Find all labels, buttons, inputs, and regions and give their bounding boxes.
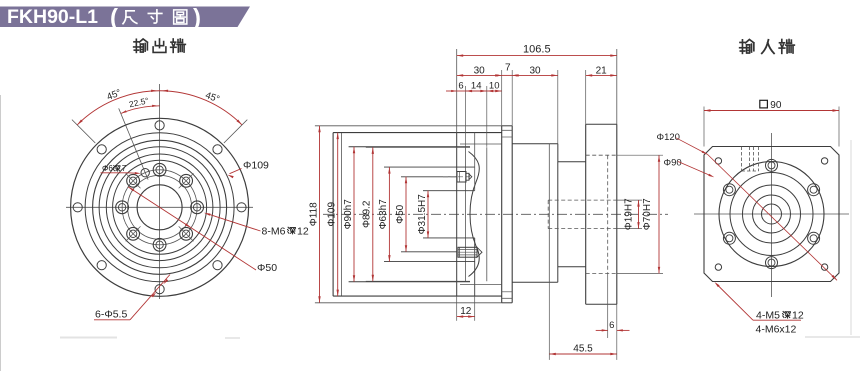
svg-text:45.5: 45.5 [573, 344, 593, 355]
svg-text:Φ90: Φ90 [664, 158, 682, 169]
svg-text:30: 30 [474, 66, 486, 77]
left view 135deg extension line [72, 120, 95, 143]
middle view centerline [323, 213, 668, 215]
middle view plate corner steps [502, 136, 513, 138]
dimension 6 recess depth [607, 273, 609, 338]
dimension phi118 [319, 126, 321, 303]
middle view bore edge phi90h7 [349, 146, 470, 148]
dimension 6 rear small [446, 90, 457, 92]
dimension 106.5 overall [457, 55, 617, 57]
middle view internal joint face [456, 133, 458, 297]
right view 6 counterbored holes [766, 159, 778, 171]
dimension phi90h7 [353, 147, 355, 282]
faint smudge bottom [60, 337, 117, 339]
dimension phi63h7 [388, 167, 390, 262]
left view circle r67 [93, 140, 227, 274]
svg-text:106.5: 106.5 [523, 43, 551, 55]
middle view bore phi19H7 hidden lines [548, 199, 617, 201]
right view red diagonal pcd line [708, 154, 838, 280]
right view square flange outline [704, 147, 839, 282]
svg-text:12: 12 [297, 226, 309, 238]
left view 112.5deg extension line [119, 108, 148, 179]
middle view bore edge phi50 [401, 176, 457, 178]
left view outer circle (118) [71, 118, 249, 296]
svg-text:21: 21 [596, 66, 608, 77]
middle view box internal step face [548, 144, 550, 282]
svg-text:8-M6: 8-M6 [262, 226, 286, 238]
left view circle r32 [128, 175, 192, 239]
svg-text:Φ50: Φ50 [257, 262, 277, 274]
left view circle r53.3 [106, 154, 213, 261]
svg-text:30: 30 [529, 66, 541, 77]
middle view bore edge phi31.5H7 [423, 190, 475, 192]
left view 8 plain holes 5.5 on pcd 109 [237, 203, 246, 212]
middle view extension line phi118 bottom [315, 302, 502, 304]
svg-text:): ) [193, 5, 201, 32]
svg-text:Φ63h7: Φ63h7 [378, 199, 389, 230]
dimension 30 box [512, 74, 558, 76]
middle view internal face C [486, 147, 488, 281]
dimension 45.5 [548, 282, 550, 360]
svg-text:14: 14 [471, 80, 482, 91]
middle view bore edge phi63h7 [384, 166, 475, 168]
middle view hub face edge [474, 133, 476, 191]
middle view body outline phi109 [332, 133, 334, 297]
dimension 10 [487, 90, 502, 92]
header glyph cun 寸 [148, 10, 162, 23]
svg-text:7: 7 [122, 164, 127, 173]
left view bolt circle r37.5 [122, 170, 197, 245]
left view crosshair centerlines [66, 206, 253, 208]
middle view internal face B [465, 147, 467, 281]
middle view adapter box [512, 143, 558, 145]
svg-text:10: 10 [489, 80, 500, 91]
svg-text:12: 12 [460, 306, 472, 317]
left view 45deg extension line [224, 120, 247, 143]
svg-text:Φ50: Φ50 [395, 204, 406, 224]
middle view top clamp screw [443, 176, 470, 178]
right view circles [762, 204, 782, 224]
dimension phi109 [337, 133, 339, 297]
dimension phi70H7 right [617, 154, 663, 156]
dimension phi31.5H7 [427, 191, 429, 238]
svg-text:Φ89.2: Φ89.2 [362, 200, 373, 228]
middle view flange plate phi118 [501, 126, 503, 303]
svg-text:90: 90 [770, 100, 782, 111]
svg-text:Φ31.5H7: Φ31.5H7 [417, 194, 428, 235]
svg-text:4-M5: 4-M5 [756, 310, 780, 322]
left view title 输出端 [134, 39, 148, 52]
left view 8 tapped holes M6 double circles on pcd 50 [191, 201, 204, 214]
svg-text:Φ109: Φ109 [327, 202, 338, 227]
right view crosshair centerlines [694, 213, 849, 215]
extension lines top [456, 49, 458, 133]
svg-text:12: 12 [792, 310, 804, 322]
middle view bearing edges [460, 143, 502, 145]
dimension 30 rear [457, 74, 502, 76]
header banner [0, 7, 250, 28]
svg-text:Φ120: Φ120 [657, 132, 680, 143]
dimension 7 plate [502, 74, 513, 76]
scan edge line left [0, 95, 2, 371]
left view 22.5deg dimension arc [121, 106, 160, 114]
left view pin hole 6 deep 7 at 112.5deg [141, 169, 149, 177]
header glyph tu 圖 [174, 10, 187, 24]
header glyph chi 尺 [123, 11, 137, 24]
scan edge line right [850, 140, 852, 335]
svg-text:Φ90h7: Φ90h7 [343, 199, 354, 230]
left view circle r75.5 [85, 133, 234, 282]
middle view input flange disc phi120 [585, 124, 587, 304]
right view hidden clamp slot [741, 147, 743, 172]
left view center bore circle r22.5 [137, 185, 182, 230]
svg-text:4-M6x12: 4-M6x12 [756, 324, 797, 336]
svg-text:Φ70H7: Φ70H7 [642, 198, 653, 230]
dimension phi19H7 right [617, 199, 642, 201]
middle view bore edge phi89.2 [366, 146, 470, 148]
svg-text:6-Φ5.5: 6-Φ5.5 [95, 309, 127, 321]
left view circle r60.5 [99, 147, 220, 268]
dimension 14 [466, 90, 487, 92]
right view square dimension 90 [703, 107, 705, 147]
svg-text:Φ19H7: Φ19H7 [624, 198, 635, 230]
dimension 12 bottom [456, 296, 458, 321]
svg-text:FKH90-L1: FKH90-L1 [7, 6, 98, 28]
left view big 45deg dimension arc [77, 91, 242, 125]
middle view coupling cylinder phi70 [558, 161, 586, 163]
svg-text:6: 6 [609, 320, 614, 331]
middle view bottom set screw M6 [458, 247, 477, 257]
middle view extension line phi118 top [315, 125, 502, 127]
right view title 输入端 [740, 39, 754, 53]
svg-text:(: ( [110, 5, 118, 32]
right view 4 corner holes [715, 158, 721, 164]
svg-text:Φ118: Φ118 [308, 202, 319, 226]
svg-text:Φ6: Φ6 [102, 164, 113, 173]
middle view recess phi70H7 hidden lines [586, 154, 617, 156]
svg-text:7: 7 [505, 63, 511, 74]
left view circle r47 [113, 160, 207, 254]
middle view flexspline wavy line [469, 152, 480, 277]
svg-text:Φ109: Φ109 [243, 159, 269, 171]
dimension phi50 [405, 177, 407, 252]
svg-text:6: 6 [458, 80, 463, 91]
dimension 21 disc [586, 74, 617, 76]
dimension phi89.2 [372, 147, 374, 281]
